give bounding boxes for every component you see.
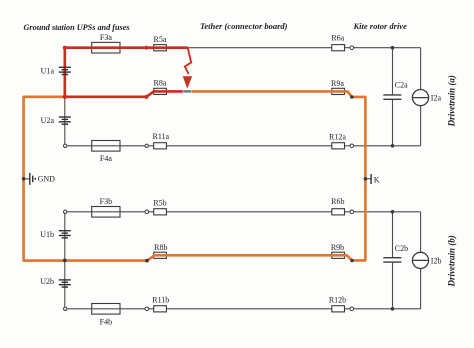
svg-text:F3a: F3a [100,33,112,42]
svg-text:C2a: C2a [395,81,408,90]
svg-text:Drivetrain (a): Drivetrain (a) [446,75,456,127]
svg-text:R8b: R8b [154,243,167,252]
svg-text:F4a: F4a [100,154,112,163]
svg-text:R12b: R12b [329,296,346,305]
svg-text:R9b: R9b [331,243,344,252]
svg-text:Kite rotor drive: Kite rotor drive [353,21,408,31]
svg-text:U1a: U1a [41,66,55,75]
svg-text:GND: GND [38,175,56,184]
svg-text:U2a: U2a [41,116,55,125]
svg-text:Tether (connector board): Tether (connector board) [200,21,288,31]
svg-text:R9a: R9a [331,79,344,88]
svg-text:R5b: R5b [153,199,166,208]
svg-text:U1b: U1b [40,230,54,239]
svg-text:I2a: I2a [431,94,442,103]
svg-text:Ground station UPSs and fuses: Ground station UPSs and fuses [24,23,130,32]
svg-text:R11b: R11b [152,295,169,304]
svg-text:R6a: R6a [331,33,344,42]
svg-text:C2b: C2b [395,244,408,253]
svg-text:F3b: F3b [100,197,112,206]
svg-text:K: K [374,176,380,185]
svg-text:R6b: R6b [331,197,344,206]
svg-text:R11a: R11a [153,132,170,141]
svg-text:Drivetrain (b): Drivetrain (b) [447,235,457,287]
svg-text:I2b: I2b [431,256,442,265]
svg-text:R8a: R8a [154,79,167,88]
svg-text:R5a: R5a [154,35,167,44]
svg-text:F4b: F4b [100,317,112,326]
svg-text:U2b: U2b [40,277,54,286]
svg-text:R12a: R12a [329,133,346,142]
